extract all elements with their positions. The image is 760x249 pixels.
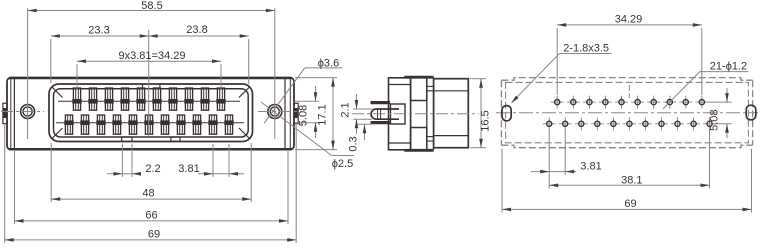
svg-text:17.1: 17.1	[317, 104, 329, 125]
svg-text:2-1.8x3.5: 2-1.8x3.5	[563, 42, 609, 54]
svg-text:69: 69	[148, 228, 160, 240]
svg-text:23.3: 23.3	[88, 25, 109, 37]
svg-text:9x3.81=34.29: 9x3.81=34.29	[119, 50, 186, 62]
svg-text:34.29: 34.29	[615, 13, 643, 25]
svg-text:16.5: 16.5	[480, 110, 492, 131]
svg-text:3.81: 3.81	[580, 160, 601, 172]
svg-text:5.08: 5.08	[709, 109, 721, 130]
svg-text:ϕ2.5: ϕ2.5	[332, 158, 353, 170]
svg-text:69: 69	[624, 198, 636, 210]
svg-text:3.81: 3.81	[178, 163, 199, 175]
svg-text:38.1: 38.1	[621, 174, 642, 186]
svg-text:66: 66	[145, 209, 157, 221]
svg-text:2.1: 2.1	[340, 102, 352, 117]
svg-text:2.2: 2.2	[145, 163, 160, 175]
svg-text:58.5: 58.5	[141, 0, 162, 12]
svg-text:0.3: 0.3	[348, 136, 360, 151]
svg-text:21-ϕ1.2: 21-ϕ1.2	[710, 61, 747, 73]
svg-text:23.8: 23.8	[186, 24, 207, 36]
svg-text:5.08: 5.08	[298, 105, 310, 126]
svg-text:48: 48	[142, 188, 154, 200]
